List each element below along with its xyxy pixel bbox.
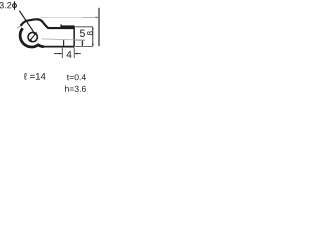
extension of mid line toward dim 5 — [75, 39, 85, 41]
dimension text "5" — [80, 30, 85, 37]
solder lug outline: strip bottom edge — [43, 46, 74, 48]
stray vertical line right edge (crop artifact) — [98, 8, 100, 46]
end tab top edge — [61, 25, 74, 27]
extension lines for dims 5 and 8 — [75, 27, 93, 47]
extension lines for dim 4 — [62, 47, 74, 58]
faint mid line across strip (neck edge) — [42, 39, 76, 40]
dimension text "3.2" (hole diameter value) — [0, 2, 11, 8]
faint stray stroke at left of lug ring (scan artifact) — [17, 26, 21, 29]
step between strip top edge and end tab top edge — [60, 24, 62, 28]
dimension text "t=0.4" (thickness) — [67, 74, 86, 80]
background — [0, 0, 100, 100]
dimension line 5 with arrows — [81, 40, 83, 46]
dimension text "8" (rotated) — [87, 31, 93, 35]
solder lug outline: ring left-bottom arc blending into bottom edge — [20, 28, 44, 47]
phi (diameter) symbol of "3.2 phi" — [13, 1, 17, 10]
dimension line 8 with arrows — [92, 27, 94, 47]
hole circle (3.2 dia) — [28, 32, 37, 41]
dimension text "h=3.6" (tab height) — [65, 86, 86, 92]
end tab right edge — [73, 26, 75, 47]
hole diameter arrows inside hole — [30, 34, 35, 41]
leader line from "3.2 phi" label to hole — [19, 11, 33, 32]
solder lug outline: top edge (curve over ring into strip top edge) — [21, 19, 74, 28]
dimension text "4" — [67, 51, 72, 58]
stray horizontal line top (crop artifact) — [40, 16, 82, 18]
dimension line 4 arrows (outside, pointing in) — [54, 53, 81, 55]
dimension text "l = 14" (overall length) — [24, 73, 46, 80]
bend line of end tab — [63, 40, 65, 46]
